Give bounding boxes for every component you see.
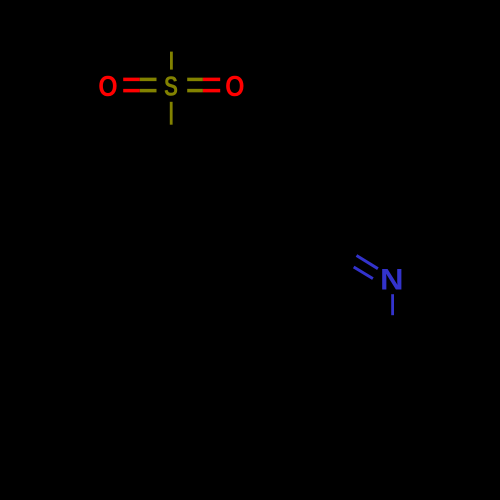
double bond S=O right, lower line red half [203, 89, 220, 93]
svg-text:O: O [225, 71, 244, 103]
double bond C1=N inner line blue half [354, 267, 373, 279]
double bond S=O left, lower line red half [123, 89, 140, 93]
wire: bond S-C8 black half [170, 125, 173, 164]
double bond C1=N main line blue half [357, 256, 378, 269]
svg-text:S: S [164, 70, 178, 101]
wire: bond C1=N black half [315, 229, 357, 256]
double bond S=O right, lower line olive half [187, 89, 203, 93]
wire: bond C(methyl)-S black half [170, 33, 173, 52]
wire: bond N-C3 black half [391, 315, 394, 354]
svg-text:N: N [380, 263, 404, 296]
svg-text:O: O [98, 71, 117, 103]
wire: ring bond C4a-C8a [243, 207, 250, 355]
wire: ring bond C8-C8a [171, 164, 243, 207]
carbon skeleton (black on black, invisible) [171, 33, 393, 395]
bond CH3-S olive half [170, 52, 173, 70]
double bond S=O left, upper line olive half [140, 78, 157, 82]
double bond S=O right, upper line red half [203, 78, 220, 82]
bond N-C3 blue half [391, 294, 394, 315]
bond S-C8 olive half [170, 102, 173, 125]
wire: ring bond C8a-C1 [243, 207, 315, 229]
double bond S=O right, upper line olive half [187, 78, 203, 82]
double bond S=O left, lower line olive half [140, 89, 157, 93]
wire: ring bond C4-C4a [250, 355, 325, 395]
wire: ring bond C3-C4 [325, 354, 393, 395]
double bond S=O left, upper line red half [123, 78, 140, 82]
